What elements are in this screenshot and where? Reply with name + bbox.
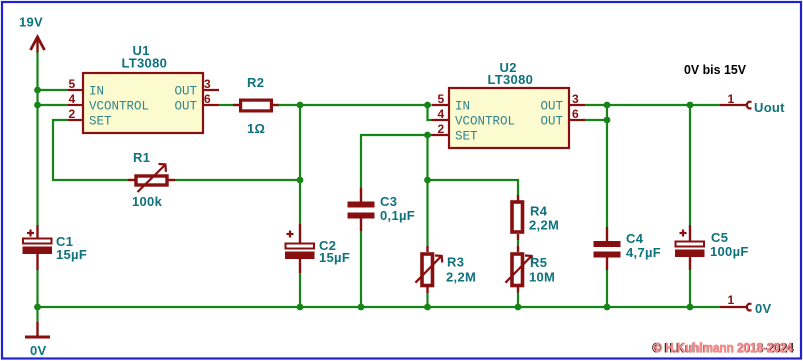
value 100k <box>132 194 163 209</box>
copyright watermark <box>652 340 794 356</box>
junction pin6 x607 <box>604 117 611 124</box>
wire R3/R4 branch <box>428 180 519 201</box>
svg-text:10M: 10M <box>529 270 555 285</box>
resistor R5 variable body <box>505 254 532 286</box>
wire x690 vertical <box>689 105 691 307</box>
svg-text:3: 3 <box>204 77 211 91</box>
junction gnd x361 <box>358 304 365 311</box>
junction gnd x518 <box>515 304 522 311</box>
pin 0V connector right <box>720 293 752 310</box>
svg-text:2,2M: 2,2M <box>529 218 559 233</box>
junction gnd x37 <box>34 304 41 311</box>
value 10M <box>529 270 555 285</box>
svg-text:0V bis 15V: 0V bis 15V <box>684 63 747 77</box>
wire SET2 net to C3 <box>361 135 432 188</box>
svg-text:R1: R1 <box>133 150 150 165</box>
svg-text:0V: 0V <box>30 343 47 358</box>
svg-text:LT3080: LT3080 <box>488 72 534 87</box>
svg-text:SET: SET <box>455 130 478 144</box>
svg-text:5: 5 <box>438 92 445 106</box>
svg-text:OUT: OUT <box>175 85 198 99</box>
label R5 <box>530 255 547 270</box>
wire SET2 vertical x427 <box>426 135 428 180</box>
U1 pin 3 stub <box>202 77 219 91</box>
svg-text:2,2M: 2,2M <box>446 270 476 285</box>
resistor R2 body <box>233 100 279 111</box>
svg-text:1: 1 <box>728 293 735 307</box>
value 100uF <box>710 244 749 259</box>
label C2 <box>319 238 336 253</box>
junction 19V pin4 <box>34 102 41 109</box>
wire R2 to U2 pin5 <box>279 104 432 106</box>
junction gnd x427 <box>424 304 431 311</box>
svg-text:IN: IN <box>89 85 104 99</box>
junction U2 in <box>424 102 431 109</box>
label C4 <box>626 231 644 246</box>
svg-text:100µF: 100µF <box>710 244 749 259</box>
junction gnd x607 <box>604 304 611 311</box>
label 0V bis 15V <box>684 63 747 77</box>
svg-text:2: 2 <box>69 107 76 121</box>
wire R5 to ground <box>517 286 519 307</box>
svg-text:3: 3 <box>572 92 579 106</box>
U1 pin 5 stub <box>68 77 83 91</box>
wire C3 to ground <box>360 231 362 307</box>
svg-text:OUT: OUT <box>175 100 198 114</box>
junction out x690 <box>687 102 694 109</box>
svg-text:VCONTROL: VCONTROL <box>455 115 515 129</box>
junction gnd x300 <box>297 304 304 311</box>
value 4,7uF <box>626 245 661 260</box>
svg-text:© H.Kuhlmann 2018-2024: © H.Kuhlmann 2018-2024 <box>654 340 794 355</box>
value 1 ohm <box>247 121 265 136</box>
U2 pin 5 stub <box>432 92 450 106</box>
wire U2 out net <box>585 104 720 106</box>
value 2,2M R3 <box>446 270 476 285</box>
value 15uF C1 <box>56 247 87 262</box>
wire U1 pin6 to R2 <box>219 104 234 106</box>
U2 pin 6 stub <box>568 107 585 121</box>
svg-text:5: 5 <box>69 77 76 91</box>
wire U1 SET to R1 <box>53 120 129 180</box>
svg-text:6: 6 <box>204 92 211 106</box>
wire x607 vertical <box>606 105 608 307</box>
svg-text:IN: IN <box>455 100 470 114</box>
label R4 <box>530 204 548 219</box>
wire R3 leads <box>426 180 428 307</box>
wire x300 vertical <box>299 105 301 307</box>
svg-text:15µF: 15µF <box>56 247 87 262</box>
label C5 <box>711 230 728 245</box>
svg-text:R5: R5 <box>530 255 547 270</box>
capacitor C5 polarized <box>675 225 705 270</box>
svg-text:100k: 100k <box>132 194 163 209</box>
svg-text:4: 4 <box>69 92 76 106</box>
wire to U1 pin 4 <box>38 104 69 106</box>
label 0V right <box>755 301 772 316</box>
wire 19V vertical rail <box>36 52 38 307</box>
svg-text:C3: C3 <box>380 194 397 209</box>
svg-text:R3: R3 <box>447 255 464 270</box>
U1 pin 2 stub <box>68 107 83 121</box>
ground symbol 0V <box>25 307 50 337</box>
ground rail wire <box>38 306 721 308</box>
svg-text:0,1µF: 0,1µF <box>380 208 415 223</box>
value 2,2M R4 <box>529 218 559 233</box>
wire R1 to node at x300 <box>175 179 301 181</box>
U1 pin 6 stub <box>202 92 219 106</box>
svg-text:Uout: Uout <box>754 100 785 115</box>
label LT3080 U1 <box>122 56 168 71</box>
svg-text:C5: C5 <box>711 230 728 245</box>
svg-text:15µF: 15µF <box>319 250 350 265</box>
svg-text:0V: 0V <box>755 301 772 316</box>
U1 pin 4 stub <box>68 92 83 106</box>
label U2 <box>500 60 517 75</box>
capacitor C3 <box>348 188 375 231</box>
junction R1 net x300 <box>297 177 304 184</box>
label 0V ground <box>30 343 47 358</box>
label C3 <box>380 194 397 209</box>
capacitor C4 <box>594 227 621 270</box>
svg-text:C4: C4 <box>626 231 644 246</box>
junction gnd x690 <box>687 304 694 311</box>
svg-text:LT3080: LT3080 <box>122 56 168 71</box>
label Uout <box>754 100 785 115</box>
label U1 <box>133 43 150 58</box>
wire U2 pin6 to x607 <box>585 119 607 121</box>
junction out x607 <box>604 102 611 109</box>
svg-text:6: 6 <box>572 107 579 121</box>
value 0,1uF <box>380 208 415 223</box>
capacitor C2 polarized <box>285 224 315 273</box>
supply symbol 19V arrow <box>31 37 45 53</box>
svg-text:OUT: OUT <box>541 100 564 114</box>
svg-text:2: 2 <box>438 122 445 136</box>
label LT3080 U2 <box>488 72 534 87</box>
pin Uout connector <box>720 92 752 108</box>
svg-text:SET: SET <box>89 115 112 129</box>
svg-text:1: 1 <box>728 92 735 106</box>
wire to U1 pin 5 <box>38 89 69 91</box>
svg-text:4,7µF: 4,7µF <box>626 245 661 260</box>
label R3 <box>447 255 464 270</box>
value 15uF C2 <box>319 250 350 265</box>
op-amp U2 LT3080 regulator box <box>449 88 569 148</box>
U2 pin 2 stub <box>432 122 450 136</box>
svg-text:OUT: OUT <box>541 115 564 129</box>
U2 pin 4 stub <box>432 107 450 121</box>
svg-text:1Ω: 1Ω <box>247 121 265 136</box>
svg-text:R4: R4 <box>530 204 548 219</box>
junction 19V pin5 <box>34 87 41 94</box>
junction SET2 <box>424 132 431 139</box>
svg-text:19V: 19V <box>19 15 43 30</box>
label R1 <box>133 150 150 165</box>
junction R2 out x300 <box>297 102 304 109</box>
svg-text:4: 4 <box>438 107 445 121</box>
wire R4 to R5 <box>517 234 519 252</box>
resistor R1 variable body <box>128 164 175 192</box>
junction R3 top <box>424 177 431 184</box>
svg-text:VCONTROL: VCONTROL <box>89 100 149 114</box>
resistor R4 body <box>512 202 523 232</box>
capacitor C1 polarized <box>23 225 53 270</box>
resistor R3 variable body <box>415 254 442 286</box>
label C1 <box>56 234 73 249</box>
wire U2 pin4 elbow <box>428 105 432 120</box>
op-amp U1 LT3080 regulator box <box>83 73 203 133</box>
label R2 <box>247 75 264 90</box>
svg-text:R2: R2 <box>247 75 264 90</box>
net label 19V <box>19 15 43 30</box>
U2 pin 3 stub <box>568 92 585 106</box>
